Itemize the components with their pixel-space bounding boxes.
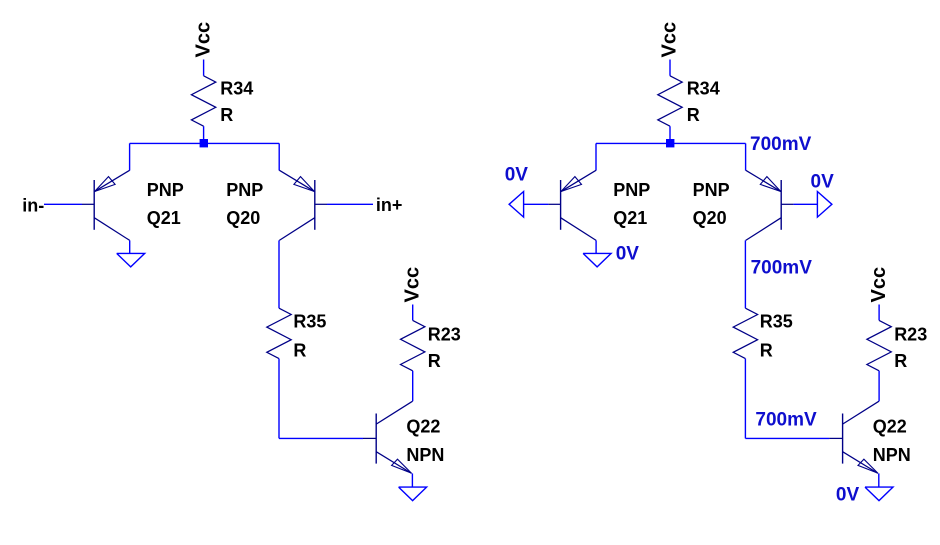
wire in- to Q21 base [44, 203, 82, 205]
svg-text:0V: 0V [836, 485, 860, 506]
wire emitter rail [130, 142, 280, 144]
svg-text:Vcc: Vcc [659, 22, 681, 58]
wire to Q22 base [279, 437, 363, 439]
svg-text:Vcc: Vcc [868, 267, 890, 303]
ground (Q21 collector, B) [583, 253, 611, 267]
transistor Q22 (A) (NPN) [363, 401, 413, 473]
wire Q22 emitter to ground [411, 473, 413, 487]
wire Q21 collector to ground [129, 240, 131, 253]
svg-text:R34: R34 [220, 79, 253, 99]
svg-text:Q21: Q21 [613, 208, 647, 228]
node junction (R34/emitters) [200, 139, 208, 147]
svg-text:R: R [894, 351, 907, 371]
svg-text:700mV: 700mV [755, 409, 817, 430]
wire port to Q21 base [524, 203, 549, 205]
svg-text:in+: in+ [376, 195, 403, 215]
resistor R34 (A) [191, 76, 253, 126]
wire R35 down [278, 359, 280, 439]
transistor Q20 (A) (PNP) [279, 170, 327, 240]
ground (Q22 emitter, A) [399, 487, 427, 501]
svg-text:0V: 0V [616, 244, 640, 265]
svg-text:700mV: 700mV [750, 134, 812, 155]
svg-text:R35: R35 [293, 312, 326, 332]
svg-text:PNP: PNP [226, 180, 263, 200]
svg-text:0V: 0V [505, 164, 529, 185]
svg-text:R: R [220, 105, 233, 125]
svg-text:NPN: NPN [873, 445, 911, 465]
wire rail to Q21 emitter [595, 143, 597, 170]
wire Vcc to R34 [669, 60, 671, 76]
resistor R23 (B) [867, 320, 927, 371]
svg-text:PNP: PNP [147, 180, 184, 200]
svg-text:R34: R34 [687, 79, 720, 99]
wire Q21 collector to ground [595, 240, 597, 253]
wire to Q22 base [745, 437, 829, 439]
svg-text:PNP: PNP [693, 180, 730, 200]
wire Q20 collector to R35 [744, 240, 746, 308]
wire R35 down [744, 359, 746, 439]
svg-text:R: R [293, 340, 306, 360]
svg-text:PNP: PNP [613, 180, 650, 200]
svg-text:R: R [687, 105, 700, 125]
svg-text:R: R [760, 340, 773, 360]
svg-text:Q21: Q21 [147, 208, 181, 228]
wire rail to Q20 emitter [745, 143, 747, 170]
transistor Q22 (B) (NPN) [829, 401, 879, 473]
svg-text:R23: R23 [428, 325, 461, 345]
svg-text:0V: 0V [811, 171, 835, 192]
wire Q20 collector to R35 [278, 240, 280, 308]
svg-text:Q22: Q22 [873, 417, 907, 437]
wire Vcc to R23 [412, 305, 414, 321]
wire Q20 base to port [793, 203, 817, 205]
transistor Q21 (A) (PNP) [82, 170, 130, 240]
ground (Q22 emitter, B) [865, 487, 893, 501]
port flag in- (0V) [509, 192, 523, 218]
node junction (R34/emitters) [666, 139, 674, 147]
wire Q20 base to in+ [327, 203, 373, 205]
wire emitter rail [596, 142, 746, 144]
wire Vcc to R34 [203, 60, 205, 76]
transistor Q20 (B) (PNP) [746, 170, 794, 240]
svg-text:in-: in- [22, 195, 44, 215]
wire rail to Q21 emitter [129, 143, 131, 170]
svg-text:NPN: NPN [406, 445, 444, 465]
wire rail to Q20 emitter [278, 143, 280, 170]
ground (Q21 collector, A) [117, 253, 145, 267]
svg-text:R: R [428, 351, 441, 371]
transistor Q21 (B) (PNP) [548, 170, 596, 240]
svg-text:700mV: 700mV [751, 257, 813, 278]
resistor R35 (A) [267, 308, 327, 360]
svg-text:R35: R35 [760, 312, 793, 332]
svg-text:Vcc: Vcc [401, 267, 423, 303]
wire R23 to Q22 collector [878, 371, 880, 401]
wire R23 to Q22 collector [412, 371, 414, 401]
port flag in+ (0V) [817, 192, 832, 218]
wire Q22 emitter to ground [878, 473, 880, 487]
svg-text:Vcc: Vcc [192, 22, 214, 58]
svg-text:Q20: Q20 [693, 208, 727, 228]
resistor R34 (B) [658, 76, 720, 126]
svg-text:R23: R23 [894, 325, 927, 345]
wire R34 bottom to node [203, 126, 205, 143]
svg-text:Q20: Q20 [226, 208, 260, 228]
svg-text:Q22: Q22 [406, 417, 440, 437]
resistor R23 (A) [401, 320, 461, 371]
wire R34 bottom to node [669, 126, 671, 143]
resistor R35 (B) [733, 308, 793, 360]
wire Vcc to R23 [878, 305, 880, 321]
